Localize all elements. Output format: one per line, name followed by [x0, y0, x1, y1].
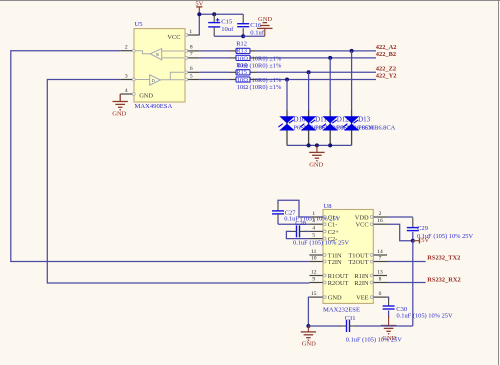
U8 pin 1 C1+: [309, 216, 323, 218]
U8 pin 16 VCC: [373, 223, 387, 225]
junction C15 top: [212, 12, 216, 16]
junction 5V right: [411, 239, 415, 243]
svg-text:T2IN: T2IN: [328, 259, 342, 266]
ground symbol bottom left: [307, 326, 309, 332]
svg-text:5V: 5V: [421, 237, 429, 244]
svg-text:10Ω (10R0) ±1%: 10Ω (10R0) ±1%: [237, 77, 282, 84]
svg-text:10: 10: [311, 256, 317, 262]
U5 pin 7: [185, 57, 200, 59]
wire pin16 VCC to 5V junction: [387, 224, 413, 241]
svg-text:P6SMB6.8CA: P6SMB6.8CA: [358, 124, 395, 131]
ground symbol below C30: [381, 325, 396, 327]
svg-text:13: 13: [377, 270, 383, 276]
U8 pin 6 VEE: [373, 296, 387, 298]
ground symbol top right (inverted): [264, 28, 266, 36]
TVS diode D11 P6SMB6.8CA: [301, 116, 316, 123]
resistor R15 10R body: [230, 79, 237, 81]
wire U5 pin2 to U8 T2IN (outer loop): [11, 51, 310, 262]
U8 pin 2 VDD: [373, 216, 387, 218]
wire pin6 VEE to C30: [387, 297, 389, 299]
wire drop to D13: [351, 51, 353, 110]
U8 pin 4 C2+: [309, 230, 323, 232]
svg-text:422_Y2: 422_Y2: [376, 73, 397, 80]
svg-text:GND: GND: [302, 340, 316, 347]
svg-text:6: 6: [190, 66, 193, 72]
svg-text:VCC: VCC: [167, 34, 180, 41]
TVS diode D11 pins: [308, 110, 310, 145]
resistor R14 10R body: [230, 71, 237, 73]
wire U5 to resistor R12: [200, 50, 230, 52]
svg-text:C31: C31: [345, 315, 356, 322]
wire pin15 GND down: [308, 297, 309, 326]
svg-text:R15: R15: [236, 69, 247, 76]
svg-text:VCC: VCC: [355, 222, 368, 229]
wire net 422_Y2: [257, 79, 377, 81]
svg-text:0.1uf: 0.1uf: [250, 29, 265, 36]
junction C16 bottom: [241, 34, 245, 38]
U5 pin 5: [185, 79, 200, 81]
wire C30 bottom to gnd rail: [388, 310, 390, 318]
svg-text:VDD: VDD: [355, 214, 369, 221]
ground symbol at U5 pin 4: [119, 94, 121, 102]
svg-text:8: 8: [190, 45, 193, 51]
U5 internal receiver wiring: [162, 50, 184, 52]
wire drop to D10: [286, 80, 288, 111]
power 5V right: [413, 240, 420, 242]
svg-text:2: 2: [379, 211, 382, 217]
svg-text:R2OUT: R2OUT: [328, 280, 349, 287]
U8 pin 13 R1IN: [373, 275, 387, 277]
TVS diode D12 pins: [329, 110, 331, 145]
junction rail D11: [307, 143, 311, 147]
U5 pin 3 DI: [120, 79, 134, 81]
U5 pin 6: [185, 71, 200, 73]
wire U5 to resistor R14: [200, 71, 230, 73]
capacitor C30: [383, 305, 395, 307]
TVS diode D13 pins: [351, 110, 353, 145]
sheet border right: [498, 0, 500, 365]
wire net 422_A2: [257, 50, 377, 52]
wire U5 pin3 to U8 R2OUT (inner loop): [47, 80, 309, 284]
svg-text:R2IN: R2IN: [354, 280, 369, 287]
svg-text:C29: C29: [417, 225, 429, 232]
svg-text:422_B2: 422_B2: [376, 51, 396, 58]
svg-text:C28: C28: [295, 220, 307, 227]
capacitor C15: [213, 14, 215, 22]
wire T2OUT to RS232_TX2: [387, 261, 426, 263]
op-amp U8 body MAX232ESE: [323, 210, 373, 304]
svg-text:R1OUT: R1OUT: [328, 273, 349, 280]
wire 5V down to U5 pin1: [198, 14, 200, 35]
junction rail D12: [328, 143, 332, 147]
capacitor C28: [296, 225, 298, 237]
junction 422_Z2: [307, 70, 311, 74]
svg-text:GND: GND: [139, 93, 153, 100]
svg-text:R14: R14: [236, 62, 247, 69]
junction 422_B2: [328, 56, 332, 60]
svg-text:2: 2: [125, 45, 128, 51]
U5 pin 4 GND: [120, 93, 134, 95]
U8 pin 9 R2OUT: [309, 282, 323, 284]
TVS diode D10 pins: [286, 110, 288, 145]
svg-text:D: D: [152, 78, 155, 83]
wire gnd rail right segment: [350, 325, 357, 327]
svg-text:T2OUT: T2OUT: [348, 259, 368, 266]
svg-text:D13: D13: [358, 116, 371, 124]
wire 5V rail down right side: [412, 241, 414, 326]
svg-text:1: 1: [189, 29, 192, 35]
U5 internal driver wiring: [135, 79, 150, 81]
wire C27 loop pin1 side: [278, 200, 309, 217]
svg-text:R12: R12: [236, 41, 247, 48]
capacitor C27: [272, 210, 284, 212]
svg-text:7: 7: [379, 256, 382, 262]
svg-text:C2+: C2+: [328, 229, 339, 236]
wire C27 to pin3: [278, 223, 309, 225]
svg-text:GND: GND: [112, 111, 126, 118]
U8 pin 12 R1OUT: [309, 275, 323, 277]
wire gnd rail left segment: [308, 325, 341, 327]
U8 pin 10 T2IN: [309, 261, 323, 263]
wire net 422_B2: [257, 57, 377, 59]
junction rail GND stem: [315, 143, 319, 147]
op-amp U5 body MAX490ESA: [134, 29, 185, 102]
TVS diode D13 P6SMB6.8CA: [344, 116, 359, 123]
wire C15 bottom rail: [214, 35, 243, 37]
svg-text:0.1uF (105) 10% 25V: 0.1uF (105) 10% 25V: [284, 216, 340, 223]
wire U5 to resistor R15: [200, 79, 230, 81]
capacitor C29: [407, 227, 419, 229]
wire U5 to resistor R13: [200, 57, 230, 59]
svg-text:GND: GND: [258, 16, 272, 23]
junction 5V: [197, 12, 201, 16]
svg-text:10uf: 10uf: [221, 26, 234, 33]
svg-text:6: 6: [379, 291, 382, 297]
resistor R13 10R body: [230, 57, 237, 59]
svg-text:422_Z2: 422_Z2: [376, 65, 396, 72]
svg-text:3: 3: [125, 73, 128, 79]
wire drop to D12: [329, 58, 331, 110]
U8 pin 14 T1OUT: [373, 254, 387, 256]
svg-text:9: 9: [312, 277, 315, 283]
U8 pin 5 C2-: [309, 238, 323, 240]
svg-text:RS232_RX2: RS232_RX2: [427, 277, 460, 284]
U5 pin 1 VCC: [185, 34, 200, 36]
svg-text:4: 4: [125, 88, 128, 94]
sheet border top: [0, 0, 500, 2]
svg-text:12: 12: [311, 270, 317, 276]
U5 pin 8: [185, 50, 200, 52]
ground symbol diodes: [316, 145, 318, 152]
svg-text:5: 5: [312, 233, 315, 239]
resistor R12 10R body: [230, 50, 237, 52]
capacitor C31: [346, 320, 348, 332]
U8 pin 7 T2OUT: [373, 261, 387, 263]
U5 receiver triangle R: [150, 49, 161, 60]
svg-text:0.1uF (105) 10% 25V: 0.1uF (105) 10% 25V: [397, 313, 453, 320]
svg-text:10Ω (10R0) ±1%: 10Ω (10R0) ±1%: [237, 84, 282, 91]
junction 422_A2: [350, 49, 354, 53]
svg-text:14: 14: [377, 249, 383, 255]
svg-text:R: R: [156, 52, 159, 57]
U8 pin 3 C1-: [309, 223, 323, 225]
capacitor C16: [242, 14, 244, 23]
svg-text:0.1uF (105) 10% 25V: 0.1uF (105) 10% 25V: [293, 240, 349, 247]
svg-text:VEE: VEE: [356, 295, 369, 302]
svg-text:4: 4: [312, 225, 315, 231]
svg-text:16: 16: [377, 218, 383, 224]
svg-text:MAX490ESA: MAX490ESA: [135, 103, 173, 110]
svg-text:422_A2: 422_A2: [376, 44, 397, 51]
U8 pin 11 T1IN: [309, 254, 323, 256]
U5 driver triangle D: [150, 75, 161, 85]
wire pin2 VDD to C29: [387, 216, 413, 218]
svg-text:GND: GND: [328, 295, 342, 302]
wire net 422_Z2: [257, 71, 377, 73]
U8 pin 8 R2IN: [373, 282, 387, 284]
wire diode common rail: [287, 144, 352, 146]
wire R2IN to RS232_RX2: [387, 282, 426, 284]
U5 pin 2 RO: [120, 50, 134, 52]
svg-text:0.1uF (105) 10% 25V: 0.1uF (105) 10% 25V: [346, 336, 402, 343]
svg-text:RS232_TX2: RS232_TX2: [427, 255, 460, 262]
wire drop to D11: [308, 72, 310, 110]
wire 5V rail top: [199, 13, 243, 15]
svg-text:R13: R13: [236, 48, 247, 55]
svg-text:U8: U8: [324, 203, 333, 210]
svg-text:MAX232ESE: MAX232ESE: [323, 307, 360, 314]
TVS diode D10 P6SMB6.8CA: [279, 116, 294, 123]
wire pin4 to C28: [300, 230, 307, 232]
svg-text:11: 11: [311, 249, 317, 255]
svg-text:U5: U5: [135, 21, 144, 28]
svg-text:R1IN: R1IN: [354, 273, 369, 280]
U8 pin 15 GND: [309, 296, 323, 298]
svg-text:5: 5: [190, 73, 193, 79]
svg-text:GND: GND: [309, 162, 323, 169]
svg-text:8: 8: [379, 277, 382, 283]
TVS diode D12 P6SMB6.8CA: [323, 116, 338, 123]
junction 422_Y2: [285, 78, 289, 82]
svg-text:7: 7: [190, 52, 193, 58]
junction GND rail left: [306, 324, 310, 328]
wire C28 loop to pin5: [290, 230, 297, 232]
svg-text:C15: C15: [221, 19, 233, 26]
svg-text:15: 15: [311, 291, 317, 297]
wire C16 to GND: [243, 35, 265, 37]
